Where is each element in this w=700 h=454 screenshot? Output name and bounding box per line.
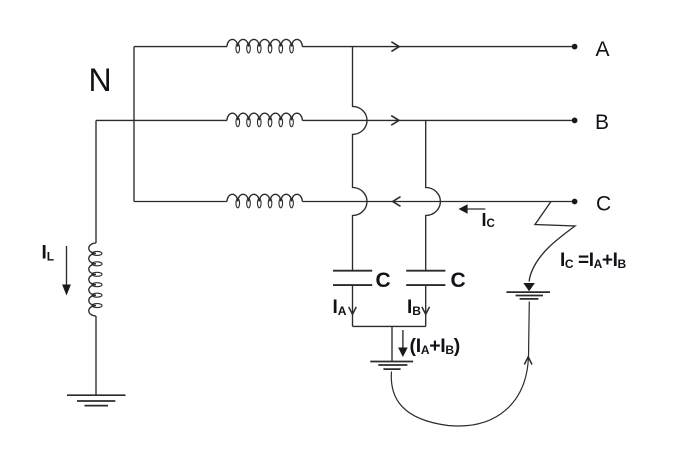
svg-text:IB: IB <box>407 297 421 318</box>
fault zigzag from phase C <box>529 202 575 282</box>
svg-text:C: C <box>451 269 466 292</box>
inductor arc-suppression coil (Petersen coil) <box>89 243 96 316</box>
inductor winding phase B <box>227 113 302 120</box>
wire phase C to terminal <box>302 201 572 203</box>
wire phase A to terminal <box>302 46 572 48</box>
wire phase B to terminal <box>302 119 572 121</box>
wire earth return loop (curved) <box>391 302 529 426</box>
svg-text:N: N <box>89 62 112 98</box>
svg-text:IC =IA+IB: IC =IA+IB <box>560 250 627 271</box>
wire neutral drop from N to arc-suppression coil <box>95 120 97 243</box>
wire tap from phase B down to capacitor (with crossover hop) <box>426 120 441 270</box>
wire phase B left lead from N <box>96 119 227 121</box>
arrow IA (open chevron down on wire) <box>349 307 357 315</box>
inductor winding phase A <box>227 39 302 46</box>
terminal dot B <box>572 118 578 124</box>
svg-text:IA: IA <box>333 297 347 318</box>
arrow (IA+IB) downward filled <box>402 330 404 348</box>
capacitor C (phase B) <box>406 271 445 285</box>
wire capacitor A to junction bar <box>352 285 354 326</box>
arrow current direction phase A <box>391 42 399 52</box>
ground (fault earth) <box>506 292 550 299</box>
wire phase C left lead <box>134 201 227 203</box>
wire neutral vertical bus (connects phase windings A-B-C left ends) <box>133 47 135 202</box>
arrow current direction phase B <box>391 116 399 126</box>
arrow fault current into earth (filled, down) <box>523 283 535 291</box>
arrow return current (open chevron up on loop) <box>524 357 532 365</box>
capacitor C (phase A) <box>333 271 372 285</box>
svg-text:(IA+IB): (IA+IB) <box>410 335 460 357</box>
svg-text:A: A <box>596 38 610 61</box>
wire junction bar to ground <box>391 326 393 361</box>
wire capacitor B to junction bar <box>425 285 427 326</box>
svg-text:C: C <box>596 193 611 216</box>
wire phase A left lead <box>134 46 227 48</box>
arrow IB (open chevron down on wire) <box>422 307 430 315</box>
wire junction bar <box>353 325 426 327</box>
arrow IL (downward, filled) <box>66 246 68 285</box>
svg-text:IL: IL <box>42 243 55 264</box>
svg-text:C: C <box>376 269 391 292</box>
arrow current direction phase C (leftward) <box>393 197 401 207</box>
inductor winding phase C <box>227 194 302 201</box>
wire tap from phase A down to capacitor (with crossover hops) <box>353 47 368 270</box>
terminal dot A <box>572 44 578 50</box>
wire coil to ground <box>95 316 97 395</box>
ground (capacitor return earth) <box>370 362 413 370</box>
ground (neutral earth) <box>67 395 126 405</box>
arrow IC on phase C (leftward, filled) <box>467 208 485 210</box>
svg-text:B: B <box>595 111 609 134</box>
terminal dot C <box>572 199 578 205</box>
svg-text:IC: IC <box>482 210 495 230</box>
